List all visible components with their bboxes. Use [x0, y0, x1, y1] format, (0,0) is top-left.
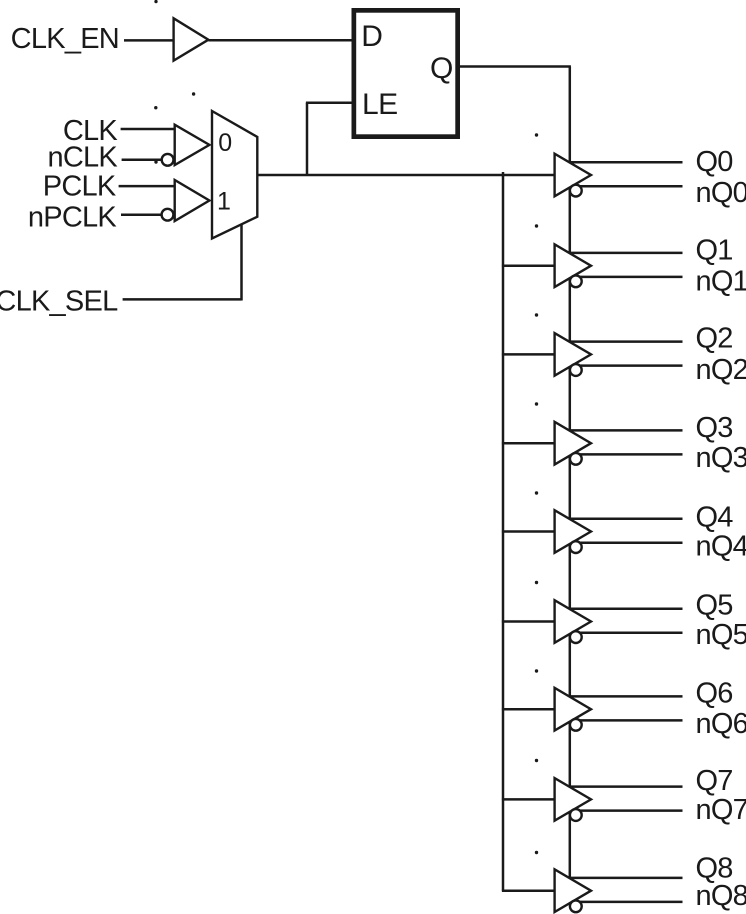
differential output buffer 2 — [555, 333, 591, 376]
differential input buffer (CLK/nCLK) — [175, 125, 210, 165]
svg-text:nQ3: nQ3 — [696, 442, 746, 474]
inverting input bubble (nCLK) — [162, 154, 174, 166]
wire branch to output buffer 6 — [502, 708, 556, 711]
wire nQ4 output line — [557, 541, 683, 544]
svg-text:Q0: Q0 — [696, 146, 733, 178]
node dot — [535, 491, 538, 494]
wire branch to output buffer 3 — [502, 442, 556, 445]
2:1 clock multiplexer — [212, 111, 257, 239]
wire branch to output buffer 1 — [502, 264, 556, 267]
inverting output bubble nQ5 — [570, 631, 582, 643]
node dot — [535, 581, 538, 584]
wire Q vertical trunk down output column — [569, 67, 572, 881]
differential output buffer 0 — [555, 154, 591, 197]
inverting output bubble nQ3 — [570, 453, 582, 465]
inverting output bubble nQ2 — [570, 364, 582, 376]
wire CLK_SEL riser to mux select — [240, 224, 243, 301]
differential output buffer 5 — [555, 600, 591, 643]
svg-text:1: 1 — [217, 188, 231, 216]
svg-text:Q7: Q7 — [696, 765, 733, 797]
wire nQ1 output line — [557, 276, 683, 279]
node dot — [535, 313, 538, 316]
svg-text:nQ6: nQ6 — [696, 708, 746, 740]
differential output buffer 8 — [555, 869, 591, 912]
wire nQ2 output line — [557, 364, 683, 367]
svg-text:Q5: Q5 — [696, 590, 733, 622]
wire LE horizontal to latch — [306, 102, 352, 105]
svg-text:CLK_EN: CLK_EN — [11, 23, 119, 55]
wire branch to output buffer 4 — [502, 530, 556, 533]
svg-text:nQ1: nQ1 — [696, 266, 746, 298]
svg-text:nPCLK: nPCLK — [28, 202, 118, 234]
svg-text:nQ7: nQ7 — [696, 794, 746, 826]
node dot — [535, 851, 538, 854]
differential output buffer 7 — [555, 778, 591, 821]
wire CLK to differential buffer non-inverting input — [121, 128, 175, 131]
wire input trunk vertical — [502, 172, 505, 891]
wire CLK_EN to buffer input — [124, 39, 174, 42]
inverting input bubble (nPCLK) — [162, 209, 174, 221]
node dot — [154, 106, 157, 109]
svg-text:Q4: Q4 — [696, 501, 734, 533]
wire nQ3 output line — [557, 453, 683, 456]
wire mux output to first output buffer — [257, 174, 556, 177]
differential output buffer 4 — [555, 510, 591, 553]
node dot — [535, 133, 538, 136]
svg-text:D: D — [361, 20, 382, 53]
node dot — [535, 402, 538, 405]
wire CLK_SEL horizontal — [123, 298, 242, 301]
inverting output bubble nQ4 — [570, 541, 582, 553]
wire branch to output buffer 7 — [502, 798, 556, 801]
svg-text:PCLK: PCLK — [43, 171, 117, 203]
wire Q3 output line — [557, 429, 683, 432]
svg-text:CLK_SEL: CLK_SEL — [0, 286, 118, 318]
wire Q1 output line — [557, 252, 683, 255]
wire buffer output to latch D pin — [208, 39, 351, 42]
differential input buffer (PCLK/nPCLK) — [175, 180, 210, 221]
svg-text:LE: LE — [362, 88, 398, 121]
wire branch to output buffer 5 — [502, 620, 556, 623]
svg-text:nQ5: nQ5 — [696, 619, 746, 651]
node dot — [535, 669, 538, 672]
svg-text:nQ4: nQ4 — [696, 530, 746, 562]
differential output buffer 6 — [555, 688, 591, 731]
node dot — [535, 224, 538, 227]
svg-text:Q6: Q6 — [696, 678, 733, 710]
wire nQ5 output line — [557, 631, 683, 634]
node dot — [192, 92, 195, 95]
svg-text:Q: Q — [430, 52, 453, 85]
wire Q8 output line — [557, 877, 683, 880]
inverting output bubble nQ6 — [570, 719, 582, 731]
node dot — [535, 759, 538, 762]
node dot — [154, 0, 157, 3]
node dot — [154, 160, 157, 163]
wire latch Q output — [460, 65, 571, 68]
wire Q0 output line — [557, 161, 683, 164]
wire Q6 output line — [557, 695, 683, 698]
svg-text:nQ8: nQ8 — [696, 880, 746, 912]
wire nQ0 output line — [557, 185, 683, 188]
svg-text:Q3: Q3 — [696, 412, 733, 444]
inverting output bubble nQ0 — [570, 185, 582, 197]
wire nQ7 output line — [557, 809, 683, 812]
wire Q7 output line — [557, 785, 683, 788]
buffer (CLK_EN enable buffer) — [174, 18, 209, 60]
wire nPCLK to inverting-input bubble — [121, 213, 164, 216]
wire branch to output buffer 8 — [502, 889, 556, 892]
svg-text:0: 0 — [218, 129, 232, 157]
wire nQ8 output line — [557, 901, 683, 904]
differential output buffer 1 — [555, 244, 591, 287]
wire nQ6 output line — [557, 719, 683, 722]
inverting output bubble nQ7 — [570, 809, 582, 821]
wire Q4 output line — [557, 517, 683, 520]
svg-text:Q1: Q1 — [696, 234, 733, 266]
svg-text:Q2: Q2 — [696, 323, 733, 355]
wire LE riser from mux output net — [306, 103, 309, 176]
svg-text:nQ0: nQ0 — [696, 177, 746, 209]
svg-text:nQ2: nQ2 — [696, 354, 746, 386]
wire Q5 output line — [557, 607, 683, 610]
wire Q2 output line — [557, 340, 683, 343]
wire branch to output buffer 2 — [502, 353, 556, 356]
wire nCLK to inverting-input bubble — [122, 159, 164, 162]
inverting output bubble nQ8 — [570, 900, 582, 912]
svg-text:nCLK: nCLK — [47, 142, 118, 174]
inverting output bubble nQ1 — [570, 275, 582, 287]
differential output buffer 3 — [555, 422, 591, 465]
D latch U1 — [354, 10, 458, 136]
wire PCLK to differential buffer non-inverting input — [119, 185, 175, 188]
